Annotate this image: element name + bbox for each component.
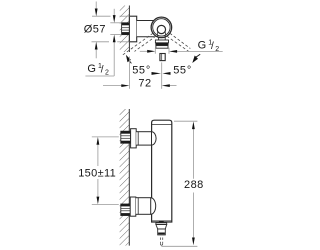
dim G1/2 left: [85, 9, 121, 76]
svg-text:72: 72: [138, 78, 151, 90]
dim 150+-11: [92, 137, 119, 205]
wall surface line: [128, 6, 130, 53]
right leader arrow: [192, 54, 200, 63]
lower neck: [136, 198, 151, 215]
bottom centre wedge: [159, 221, 164, 223]
svg-text:°: °: [146, 65, 150, 77]
wall (side view) hatched band: [120, 109, 130, 246]
outlet neck (top view): [159, 37, 166, 40]
dashed hose line left lower: [135, 36, 157, 51]
body (side view): [152, 120, 172, 222]
upper neck: [136, 132, 151, 145]
dim 288: [161, 121, 197, 246]
svg-text:57: 57: [93, 23, 106, 35]
svg-text:55: 55: [132, 65, 145, 77]
dim 72: extension lines: [128, 57, 130, 89]
outlet collar (side): [156, 223, 167, 225]
svg-text:2: 2: [215, 46, 219, 53]
svg-text:Ø: Ø: [84, 23, 93, 35]
body bottom lines: [152, 220, 172, 222]
hose dashes (side): [160, 238, 162, 246]
lower dome: [151, 198, 156, 215]
union nut (top view, in wall): [122, 23, 130, 35]
svg-text:/: /: [101, 65, 104, 76]
dim diameter 57: [92, 2, 130, 59]
outlet width dimension right arm / G1-2 leader line: [169, 48, 223, 54]
dashed hose line right lower: [167, 36, 189, 51]
outlet cone: [156, 225, 167, 230]
left leader arrow for 55: [126, 55, 131, 64]
dim 72 arrows: [103, 84, 177, 87]
svg-text:/: /: [211, 41, 214, 52]
hose stub (top view): [160, 54, 165, 61]
dashed hose line left upper: [122, 33, 153, 55]
svg-text:288: 288: [184, 179, 204, 191]
valve body circle (top view): [151, 17, 172, 38]
pipe to valve body: [137, 21, 155, 37]
svg-text:G: G: [87, 63, 96, 75]
wall (top view) hatched band: [120, 6, 130, 53]
lower escutcheon: [130, 197, 136, 216]
yoke arcs beside knob: [157, 32, 165, 37]
knob circle: [157, 25, 165, 33]
outlet collar (top view): [155, 40, 168, 43]
svg-text:2: 2: [105, 70, 109, 77]
upper dome: [152, 132, 157, 145]
outlet lower band (top view): [156, 46, 168, 49]
svg-text:°: °: [187, 65, 191, 77]
55 deg paired darts: [152, 72, 171, 75]
escutcheon (top view): [129, 16, 136, 42]
upper escutcheon: [131, 129, 137, 148]
svg-text:150±11: 150±11: [78, 168, 116, 180]
outlet dark band (top view): [155, 43, 168, 46]
dashed hose line right upper: [170, 33, 191, 48]
aerator: [158, 229, 166, 235]
upper union nut: [121, 131, 131, 143]
outlet width dimension left arm: [140, 48, 156, 54]
svg-text:G: G: [198, 40, 207, 52]
lower union nut: [121, 204, 131, 216]
svg-text:55: 55: [173, 65, 186, 77]
